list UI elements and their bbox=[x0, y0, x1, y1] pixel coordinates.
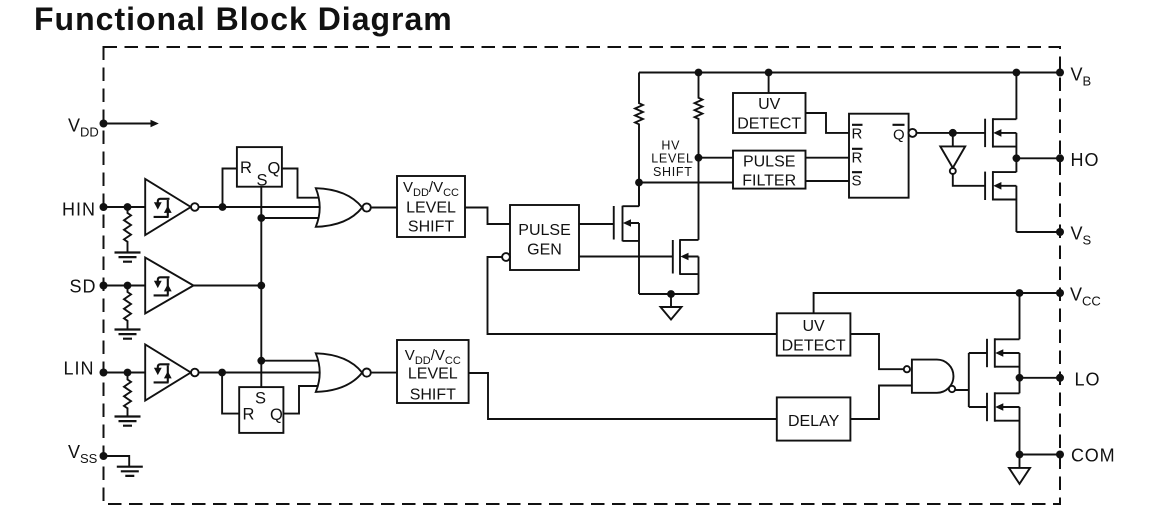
wire delay to NAND input bbox=[850, 386, 912, 420]
pin LO bbox=[1056, 374, 1064, 382]
pin VCC bbox=[1056, 289, 1064, 297]
wire HV source rail bbox=[639, 293, 699, 295]
resistor R4 (HV level shift left) bbox=[635, 73, 643, 207]
wire pulse filter to latch S bbox=[806, 180, 850, 182]
svg-text:R: R bbox=[852, 149, 863, 166]
svg-text:GEN: GEN bbox=[527, 242, 562, 259]
junction VCC rail / Q5 drain bbox=[1016, 289, 1024, 297]
wire HO to pin bbox=[1016, 157, 1060, 159]
junction S node lower bbox=[257, 357, 265, 365]
pin HIN bbox=[100, 203, 146, 211]
svg-text:FILTER: FILTER bbox=[742, 172, 796, 189]
ground (HV shift, open triangle) bbox=[670, 294, 672, 307]
wire NAND output to LO gates bbox=[955, 353, 987, 407]
pulse filter block bbox=[733, 151, 806, 190]
junction VB rail / UV detect bbox=[765, 69, 773, 77]
svg-text:LEVEL: LEVEL bbox=[651, 152, 693, 166]
junction Q-bar node bbox=[949, 129, 957, 137]
IC boundary dashed box bbox=[104, 47, 1061, 504]
node HO bbox=[1013, 154, 1021, 162]
transistor Q4 (HO high-side lower) bbox=[985, 158, 1016, 232]
svg-text:HO: HO bbox=[1071, 150, 1100, 170]
schmitt buffer U3 (LIN) bbox=[145, 345, 198, 401]
node COM bbox=[1016, 451, 1024, 459]
svg-text:COM: COM bbox=[1071, 446, 1115, 466]
wire S node to NOR1 input bbox=[261, 217, 320, 219]
NOR gate G2 (lower) bbox=[316, 353, 371, 392]
svg-text:DETECT: DETECT bbox=[737, 116, 801, 133]
pin labels left (VDD, HIN, SD, LIN, VSS) bbox=[62, 116, 99, 467]
junction SD buffer output bbox=[257, 282, 265, 290]
wire LS2 to delay bbox=[469, 373, 777, 419]
svg-text:S: S bbox=[852, 172, 862, 189]
transistor Q6 (LO lower) bbox=[987, 378, 1020, 455]
ground (VSS) bbox=[117, 467, 143, 476]
svg-text:PULSE: PULSE bbox=[518, 222, 570, 239]
svg-text:SHIFT: SHIFT bbox=[410, 387, 456, 404]
NOR gate G1 (upper) bbox=[316, 188, 371, 227]
level shift block LS2 bbox=[397, 340, 469, 404]
schmitt buffer U2 (SD) bbox=[145, 258, 193, 314]
wire LO to pin bbox=[1020, 377, 1061, 379]
NAND gate G3 bbox=[904, 360, 955, 393]
svg-text:R: R bbox=[243, 406, 255, 424]
wire VB rail bbox=[639, 72, 1060, 74]
transistor Q1 (HV shift upper MOSFET) bbox=[614, 183, 639, 295]
pin COM bbox=[1056, 451, 1064, 459]
wire UV2 to NAND input bbox=[850, 334, 903, 369]
wire HIN node to latch1 R input bbox=[223, 169, 237, 208]
wire SD buffer output bbox=[194, 285, 262, 287]
junction HV source rail / ground bbox=[667, 290, 675, 298]
wire NOR1 to level shift 1 bbox=[370, 207, 397, 209]
svg-text:DETECT: DETECT bbox=[782, 338, 846, 355]
resistor R2 (SD pulldown) bbox=[124, 286, 131, 330]
junction R5 / pulse line bbox=[695, 154, 703, 162]
transistor Q5 (LO upper) bbox=[987, 293, 1020, 378]
svg-text:Q: Q bbox=[893, 127, 905, 144]
resistor R3 (LIN pulldown) bbox=[124, 373, 131, 417]
wire SD net vertical (latch1 S to latch2 S) bbox=[260, 187, 262, 387]
junction R4 / filter line bbox=[635, 179, 643, 187]
svg-text:Q: Q bbox=[270, 406, 283, 424]
svg-text:VSS: VSS bbox=[68, 442, 98, 466]
level shift block LS1 bbox=[397, 176, 465, 237]
ground (HIN pulldown) bbox=[115, 253, 141, 262]
pulse generator block bbox=[502, 205, 579, 270]
svg-text:HV: HV bbox=[661, 138, 680, 152]
svg-text:S: S bbox=[255, 390, 266, 408]
svg-text:VDD: VDD bbox=[68, 116, 99, 140]
resistor R5 (HV level shift right) bbox=[695, 73, 703, 240]
delay block bbox=[777, 397, 851, 440]
svg-text:PULSE: PULSE bbox=[743, 153, 795, 170]
svg-text:LIN: LIN bbox=[64, 359, 95, 379]
svg-text:Q: Q bbox=[268, 160, 281, 178]
wire LIN buffer output to NOR2 bbox=[199, 372, 320, 374]
pin labels right (VB, HO, VS, VCC, LO, COM) bbox=[1070, 65, 1115, 466]
junction VB rail / R5 bbox=[695, 69, 703, 77]
pin VSS bbox=[100, 452, 130, 467]
wire VCC rail bbox=[814, 293, 1060, 313]
wire LIN node to latch2 R input bbox=[222, 373, 239, 414]
svg-text:SD: SD bbox=[70, 277, 97, 297]
pin SD bbox=[100, 282, 146, 290]
wire SD node to NOR2 input bbox=[261, 360, 320, 362]
wire latch Q to Q3 gate bbox=[917, 132, 986, 134]
svg-text:HIN: HIN bbox=[62, 200, 96, 220]
pin LIN bbox=[100, 369, 146, 377]
wire latch1 Q to NOR1 input bbox=[282, 169, 320, 198]
wire pulse filter to latch R bbox=[806, 157, 850, 159]
latch U4 (R S Q upper) bbox=[237, 147, 282, 189]
transistor Q3 (HO high-side upper) bbox=[985, 73, 1016, 159]
junction LIN node bbox=[218, 369, 226, 377]
wire pulse gen enable from UV detect 2 bbox=[488, 257, 777, 334]
wire latch2 Q to NOR2 input bbox=[283, 386, 320, 414]
svg-text:Functional Block Diagram: Functional Block Diagram bbox=[34, 1, 453, 37]
wire pulse line (R5 to pulse filter) bbox=[699, 157, 734, 159]
ground (SD pulldown) bbox=[115, 330, 141, 339]
schmitt buffer U1 (HIN) bbox=[145, 179, 198, 235]
wire NOR2 to LS2 bbox=[370, 372, 397, 374]
svg-text:SHIFT: SHIFT bbox=[653, 165, 693, 179]
ground (LIN pulldown) bbox=[115, 417, 141, 426]
HV LEVEL SHIFT label bbox=[651, 138, 693, 179]
svg-text:UV: UV bbox=[758, 96, 781, 113]
svg-text:LEVEL: LEVEL bbox=[408, 366, 458, 383]
resistor R1 (HIN pulldown) bbox=[124, 207, 131, 253]
inverter U6 bbox=[940, 133, 985, 186]
pin VS bbox=[1056, 228, 1064, 236]
wire pulse gen to M2 gate bbox=[579, 256, 673, 258]
latch U5 (RS latch high side) bbox=[849, 114, 917, 198]
wire VS to pin bbox=[1016, 231, 1060, 233]
wire UV1 to latch R input bbox=[806, 113, 850, 133]
ground (COM, open triangle) bbox=[1019, 455, 1021, 468]
svg-text:SHIFT: SHIFT bbox=[408, 219, 454, 236]
pin HO bbox=[1056, 154, 1064, 162]
svg-text:R: R bbox=[852, 126, 863, 143]
svg-text:VB: VB bbox=[1071, 65, 1092, 89]
wire filter line (R4 to pulse filter) bbox=[639, 182, 733, 184]
svg-text:LEVEL: LEVEL bbox=[406, 200, 456, 217]
wire LS1 to pulse gen bbox=[465, 208, 510, 225]
svg-text:UV: UV bbox=[802, 318, 825, 335]
junction S node upper bbox=[257, 214, 265, 222]
wire pulse gen to M1 gate bbox=[579, 223, 614, 225]
UV detect block (low side) bbox=[777, 313, 851, 355]
pin VDD bbox=[100, 120, 159, 128]
pin VB bbox=[1056, 69, 1064, 77]
UV detect block (high side) bbox=[768, 73, 770, 94]
transistor Q2 (HV shift lower MOSFET) bbox=[673, 239, 699, 294]
svg-text:VS: VS bbox=[1071, 224, 1092, 248]
wire COM to pin bbox=[1020, 454, 1061, 456]
svg-text:LO: LO bbox=[1075, 370, 1101, 390]
junction VB rail / Q3 drain bbox=[1013, 69, 1021, 77]
svg-text:VCC: VCC bbox=[1070, 285, 1101, 309]
latch U7 (R S Q lower) bbox=[239, 387, 283, 433]
junction HIN node bbox=[219, 203, 227, 211]
svg-text:R: R bbox=[240, 159, 252, 177]
wire HIN buffer output to NOR1 bbox=[199, 206, 320, 208]
svg-text:DELAY: DELAY bbox=[788, 413, 840, 430]
node LO bbox=[1016, 374, 1024, 382]
